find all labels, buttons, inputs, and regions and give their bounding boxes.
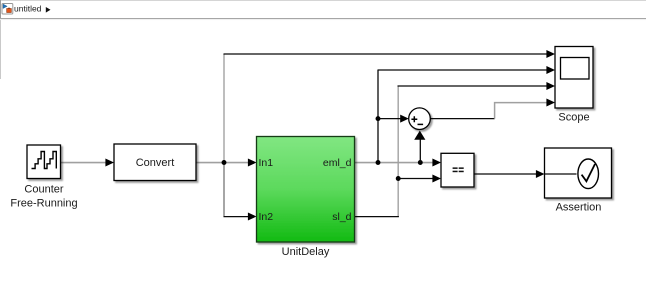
wire: Counter to Convert (gray) bbox=[61, 162, 108, 164]
assertion check ellipse bbox=[578, 159, 599, 189]
node: junction on Convert output bbox=[222, 160, 227, 165]
breadcrumb model icon bbox=[2, 4, 13, 15]
wire: top run to Scope input 1 bbox=[224, 53, 548, 55]
scope screen bbox=[561, 58, 590, 80]
svg-text:Counter: Counter bbox=[24, 184, 63, 196]
svg-text:In1: In1 bbox=[259, 157, 274, 169]
sum block (circle with plus minus) bbox=[409, 108, 431, 130]
wire: branch down to In2 bbox=[224, 216, 250, 218]
svg-text:untitled: untitled bbox=[14, 4, 42, 14]
node: junction on riser for sum plus bbox=[376, 116, 381, 121]
svg-text:eml_d: eml_d bbox=[323, 157, 352, 169]
svg-text:sl_d: sl_d bbox=[332, 211, 351, 223]
node: junction eml_d A bbox=[376, 160, 381, 165]
svg-text:Scope: Scope bbox=[558, 112, 589, 124]
wire: riser from eml_d junction B into sum minus input bbox=[419, 139, 421, 163]
node: junction eml_d B bbox=[418, 160, 423, 165]
wire: scope input 3 run (black) bbox=[398, 85, 548, 87]
svg-text:In2: In2 bbox=[259, 211, 274, 223]
counter stairstep icon bbox=[32, 152, 57, 169]
block UnitDelay (green subsystem) bbox=[257, 137, 355, 243]
wire: junction to == in2 bbox=[398, 178, 434, 180]
wire: Convert to In1 (gray) bbox=[196, 162, 250, 164]
wire inside assertion to check ellipse bbox=[545, 173, 577, 175]
svg-text:Assertion: Assertion bbox=[556, 202, 602, 214]
svg-text:Convert: Convert bbox=[136, 157, 175, 169]
block Assertion bbox=[545, 148, 612, 198]
wire: riser from eml_d to scope row 2 (black) bbox=[377, 70, 379, 163]
sum minus sign bbox=[418, 123, 424, 125]
wire: == output to Assertion bbox=[474, 173, 538, 175]
block Scope bbox=[555, 47, 593, 109]
wire: eml_d output run to == in1 (gray) bbox=[355, 162, 435, 164]
block Counter Free-Running bbox=[27, 145, 61, 179]
toolbar bottom border bbox=[0, 18, 646, 19]
left window border bbox=[0, 0, 1, 19]
wire: sum output horizontal (black) bbox=[430, 118, 494, 120]
assertion check mark bbox=[582, 164, 595, 181]
wire: sl_d output horizontal (black) bbox=[355, 216, 399, 218]
wire: gray elbow up to scope input 4 bbox=[495, 103, 548, 119]
svg-text:UnitDelay: UnitDelay bbox=[282, 246, 330, 258]
wire: branch to sum plus input bbox=[378, 118, 402, 120]
block Convert bbox=[114, 144, 196, 181]
sum plus sign bbox=[411, 116, 417, 122]
breadcrumb arrow bbox=[46, 7, 51, 13]
top window border bbox=[0, 0, 646, 1]
wire: gray riser from sl_d up to scope row (drawn beneath) bbox=[397, 86, 399, 217]
svg-text:Free-Running: Free-Running bbox=[10, 198, 77, 210]
block == (relational operator) bbox=[441, 153, 474, 187]
wire: vertical branch at x=224 (gray) bbox=[223, 54, 225, 163]
node: junction on gray riser bbox=[396, 176, 401, 181]
